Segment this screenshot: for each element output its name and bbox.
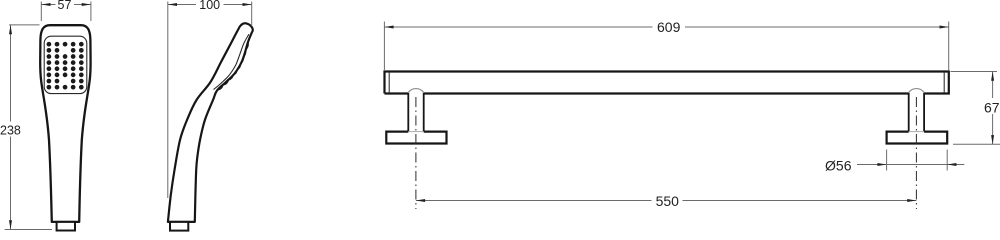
svg-text:609: 609 [657, 19, 681, 35]
svg-text:238: 238 [0, 123, 21, 137]
svg-text:100: 100 [199, 0, 220, 12]
svg-text:67: 67 [984, 99, 1000, 115]
svg-text:57: 57 [58, 0, 72, 12]
svg-text:Ø56: Ø56 [825, 158, 852, 174]
svg-text:550: 550 [656, 193, 680, 209]
